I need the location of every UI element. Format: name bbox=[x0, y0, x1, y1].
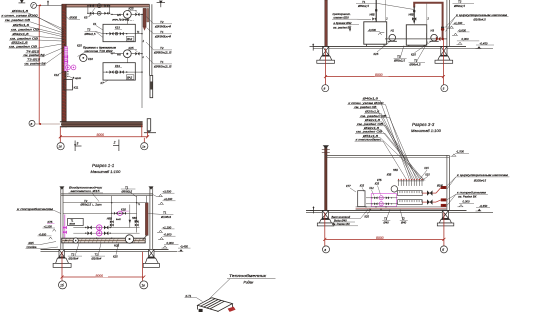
flange circle bbox=[73, 238, 78, 243]
svg-text:см. раздел ВК: см. раздел ВК bbox=[24, 53, 45, 57]
right label Т2 Ø98х4 bbox=[146, 17, 172, 29]
magenta valve pair bbox=[64, 55, 68, 58]
caption Т1 Ø89х4,5 (bottom) bbox=[409, 42, 429, 67]
level +3,200 bbox=[158, 197, 176, 204]
pump Н6 row bbox=[111, 46, 143, 58]
svg-text:Ø98х4: Ø98х4 bbox=[153, 24, 171, 28]
brown supply pipe (top) bbox=[414, 3, 442, 39]
valve bbox=[90, 12, 94, 15]
svg-text:Ø89х2,5: Ø89х2,5 bbox=[84, 32, 96, 36]
expansion tank 2 bbox=[406, 25, 426, 45]
valve assembly on top wall bbox=[87, 4, 110, 15]
dashed vent line bbox=[112, 19, 134, 21]
label К1 bbox=[93, 22, 103, 30]
caption Т1 Ø89х2,5 (top) bbox=[356, 0, 414, 9]
svg-text:-0,600: -0,600 bbox=[458, 28, 466, 32]
axis circle 1в (plan bottom) bbox=[141, 143, 148, 150]
left footing bbox=[53, 249, 71, 267]
caption к потребителям (fig D) bbox=[447, 191, 488, 206]
right column fig D bbox=[447, 155, 450, 210]
bottom pipe runs fig D bbox=[356, 204, 447, 210]
pump Н5 bbox=[123, 11, 131, 19]
svg-text:8000: 8000 bbox=[376, 236, 384, 240]
svg-text:ВА2: ВА2 bbox=[127, 76, 132, 80]
svg-text:К13: К13 bbox=[115, 26, 120, 30]
caption Воздухоотводчик bbox=[69, 186, 104, 202]
pipes through pump frame bbox=[366, 197, 398, 199]
lower riser with hatch and arrow bbox=[150, 76, 153, 98]
tank К77 bbox=[346, 184, 365, 207]
equipment box 1 bbox=[103, 24, 135, 41]
floor lines bbox=[313, 46, 493, 48]
tag ВА2 bbox=[126, 75, 133, 80]
svg-text:Ввод холодной: Ввод холодной bbox=[332, 215, 351, 219]
floor fig D bbox=[306, 210, 493, 212]
svg-text:Ø98х4,5: Ø98х4,5 bbox=[409, 63, 421, 67]
svg-text:+1,100: +1,100 bbox=[44, 224, 53, 228]
svg-text:Ø89х2,5: Ø89х2,5 bbox=[152, 51, 172, 55]
junction dots under pumps bbox=[65, 71, 69, 77]
svg-text:к циркуляционным насосам: к циркуляционным насосам bbox=[456, 13, 507, 17]
black drop pipe into tank2 bbox=[413, 6, 415, 22]
valve bbox=[104, 12, 108, 15]
section cut mark 3 bbox=[75, 141, 81, 152]
svg-text:+3,200: +3,200 bbox=[164, 197, 173, 201]
caption предохранительный клапан bbox=[332, 12, 371, 32]
suction pipe line bbox=[385, 38, 447, 40]
dark red valve at pump Н3 outlet bbox=[436, 37, 441, 42]
svg-text:Ø30Б: Ø30Б bbox=[69, 16, 78, 20]
valve bbox=[120, 32, 124, 36]
svg-text:В щит: В щит bbox=[73, 76, 82, 80]
level +1,100 (left) bbox=[43, 224, 56, 231]
svg-text:+1,100: +1,100 bbox=[454, 21, 463, 25]
level -0,450 (filled) bbox=[178, 244, 191, 251]
left column fig D (brown) bbox=[322, 145, 330, 210]
svg-text:к потребителям: к потребителям bbox=[17, 207, 53, 211]
svg-text:К12: К12 bbox=[54, 73, 59, 77]
svg-text:5000: 5000 bbox=[97, 133, 105, 137]
pump dot bbox=[115, 32, 118, 35]
label Ø51х1,8 bbox=[362, 134, 380, 138]
axis circle Г (fig B) bbox=[441, 85, 448, 92]
svg-text:Ø108х4: Ø108х4 bbox=[160, 215, 172, 219]
red dimension 8000 (fig B) bbox=[324, 39, 445, 85]
caption Т2 Ø89х2,5 ст.2шт bbox=[80, 199, 103, 207]
left footing fig D bbox=[317, 211, 334, 226]
svg-text:к циркуляционным насосам: к циркуляционным насосам bbox=[457, 173, 508, 177]
red element on heat exchanger bbox=[228, 307, 236, 312]
label Ø30Б bbox=[66, 16, 80, 20]
label к теплообмен. bbox=[355, 138, 383, 142]
thin gauge line 2 bbox=[426, 3, 428, 33]
red extension line (axis Г) bbox=[38, 5, 40, 124]
svg-text:К25: К25 bbox=[365, 214, 370, 218]
svg-text:Ø98х4: Ø98х4 bbox=[153, 34, 171, 38]
svg-text:Н3: Н3 bbox=[431, 28, 435, 32]
svg-text:Ø89х2,5: Ø89х2,5 bbox=[393, 59, 405, 63]
label Т4 Ø15 bbox=[26, 49, 40, 53]
label В щит bbox=[69, 76, 82, 80]
level 0,000 (fig D) bbox=[458, 200, 475, 207]
section mark top-right of plan bbox=[157, 1, 165, 7]
svg-text:Ø89х2,5: Ø89х2,5 bbox=[152, 65, 172, 69]
left column base bbox=[317, 47, 335, 64]
label Ø40х1,8 bbox=[361, 97, 380, 101]
axis circle 1в (fig C) bbox=[140, 281, 148, 289]
pump Н6 bbox=[123, 50, 131, 58]
pump bbox=[97, 4, 101, 8]
drop arrow and riser branch bbox=[129, 204, 141, 228]
caption Т1 Ø108х4 (riser) bbox=[148, 211, 173, 219]
svg-text:К25: К25 bbox=[129, 46, 134, 50]
svg-text:см. раздел ВК: см. раздел ВК bbox=[333, 25, 351, 29]
label см. раздел ОВ bbox=[10, 28, 40, 32]
svg-text:Разрез 3-3: Разрез 3-3 bbox=[412, 122, 435, 127]
left wall bbox=[62, 4, 66, 127]
wire pump H5 to box1 bbox=[126, 18, 128, 24]
junction dots on main pipe bbox=[65, 238, 112, 242]
top beam bbox=[61, 194, 153, 196]
equipment box 2 bbox=[103, 63, 135, 80]
drainage pump К16 bbox=[80, 54, 87, 61]
level +3,500 bbox=[153, 190, 175, 197]
red pipe from bar1 with valve bbox=[422, 186, 446, 196]
heat exchanger bar 1 bbox=[398, 191, 423, 196]
svg-text:см. Раздел ВК: см. Раздел ВК bbox=[458, 195, 477, 199]
svg-text:см. раздел ОВ: см. раздел ОВ bbox=[9, 44, 37, 48]
level 0,000 bbox=[162, 241, 179, 248]
svg-text:К25: К25 bbox=[113, 255, 118, 259]
red axis line to circle В (bottom-left of plan) bbox=[29, 120, 60, 126]
level -1,500 (beam) bbox=[451, 150, 470, 157]
bottom wall bbox=[60, 122, 143, 127]
label см. раздел ВК bbox=[24, 62, 46, 66]
svg-text:-1,500: -1,500 bbox=[456, 150, 464, 154]
axis circle А (fig D) bbox=[323, 246, 330, 253]
junction tick at x48 bbox=[47, 1, 49, 6]
level -0,600 bbox=[158, 233, 176, 240]
svg-text:Н5: Н5 bbox=[117, 13, 121, 17]
small tank box (left) bbox=[68, 218, 84, 225]
svg-text:0,000: 0,000 bbox=[167, 241, 174, 245]
label см. раздел ОВ bbox=[9, 44, 39, 48]
magenta riser with rungs bbox=[64, 47, 68, 72]
svg-text:а: а bbox=[324, 248, 326, 252]
svg-text:К1Б: К1Б bbox=[121, 207, 126, 211]
svg-text:к стен. узлам Ø100: к стен. узлам Ø100 bbox=[2, 13, 38, 17]
section cut mark 2 bbox=[113, 140, 119, 152]
svg-text:К16: К16 bbox=[88, 57, 93, 61]
leader fan fig D bbox=[377, 100, 425, 180]
label см. раздел ОВ bbox=[5, 18, 31, 22]
svg-text:Ø108: Ø108 bbox=[69, 224, 76, 226]
upper pipe run bbox=[63, 202, 147, 204]
svg-text:Ø89х2,5 ∟ 2шт: Ø89х2,5 ∟ 2шт bbox=[80, 203, 103, 207]
labels К15 (manifold right) bbox=[420, 167, 429, 179]
svg-text:+1,100: +1,100 bbox=[163, 225, 172, 229]
label Ø25х1,6 bbox=[12, 23, 30, 27]
svg-text:К25: К25 bbox=[411, 53, 416, 57]
vertical pipe 2 bbox=[136, 196, 138, 233]
label Ø25х1,6 bbox=[364, 110, 381, 114]
insulated main pipe bbox=[62, 235, 145, 248]
right footing fig D bbox=[437, 211, 454, 226]
svg-text:Н8Б: Н8Б bbox=[409, 12, 414, 16]
svg-text:см. раздел ОВ: см. раздел ОВ bbox=[5, 18, 30, 22]
red pipe from bar2 with valve bbox=[422, 198, 446, 204]
svg-text:-0,450: -0,450 bbox=[180, 244, 188, 248]
label Ø32х1,8 bbox=[363, 126, 381, 130]
caption К-Т1 bbox=[185, 294, 203, 302]
svg-text:-0,600: -0,600 bbox=[164, 233, 172, 237]
level mark +1,100 bbox=[448, 21, 465, 28]
brown riser Т1 bbox=[145, 203, 148, 236]
pink pump frame bbox=[371, 194, 396, 207]
valve after pump bbox=[131, 53, 135, 55]
magenta pump on main pipe bbox=[125, 235, 133, 243]
wire from axis circle to wall bbox=[37, 4, 62, 6]
svg-text:клапан Ø20: клапан Ø20 bbox=[334, 15, 350, 19]
svg-text:см. раздел ВК: см. раздел ВК bbox=[25, 62, 46, 66]
caption Т2 Ø89х2,5 (bottom) bbox=[393, 46, 407, 63]
black drop pipe into tank1 bbox=[375, 0, 377, 22]
svg-text:3: 3 bbox=[77, 141, 79, 145]
caption к циркуляционным насосам (fig D) bbox=[447, 173, 509, 189]
tag ВА2 bbox=[126, 36, 133, 41]
label см. раздел ВК bbox=[23, 53, 45, 57]
svg-text:см. Раздел ВК: см. Раздел ВК bbox=[332, 222, 350, 226]
heat exchanger bar 2 bbox=[398, 200, 423, 205]
left annotation block of figure A bbox=[1, 9, 46, 65]
level -0,600 (left) bbox=[38, 232, 53, 239]
svg-text:автоматич. Ø15: автоматич. Ø15 bbox=[71, 189, 101, 193]
inner riser line bbox=[141, 14, 143, 108]
svg-text:Н5Б: Н5Б bbox=[393, 169, 398, 172]
magenta valves row 1 bbox=[85, 225, 111, 230]
labels К15 К12 bbox=[360, 183, 381, 196]
svg-text:К7: К7 bbox=[101, 81, 105, 85]
valve bbox=[120, 70, 124, 74]
riser pipe Т2 (brown, top right) bbox=[143, 8, 149, 30]
label Т3 Ø15 bbox=[27, 58, 41, 62]
annotation block fig D bbox=[347, 97, 389, 142]
right column base bbox=[435, 47, 453, 64]
label К7 bbox=[101, 80, 109, 85]
label К12 bbox=[54, 72, 64, 78]
pit caption bbox=[78, 45, 117, 56]
svg-text:К25: К25 bbox=[129, 7, 134, 11]
right-side captions of figure B bbox=[453, 0, 475, 8]
caption Т2 Ø40 bbox=[400, 209, 408, 224]
valve bbox=[110, 70, 114, 74]
svg-text:Масштаб 1:100: Масштаб 1:100 bbox=[91, 169, 122, 174]
right wall bbox=[447, 0, 450, 46]
section mark top-left bbox=[19, 0, 26, 3]
magenta valve К1Б bbox=[114, 207, 129, 220]
labels К25 with leaders (fig B bottom) bbox=[374, 42, 391, 56]
riser elbow bbox=[143, 235, 147, 240]
svg-text:0,000: 0,000 bbox=[463, 200, 470, 204]
svg-text:-0,450: -0,450 bbox=[480, 41, 488, 45]
upper connection line bbox=[63, 212, 137, 214]
level +1,100 bbox=[157, 225, 175, 232]
label Ø40х1,8 bbox=[11, 9, 29, 13]
svg-text:8000: 8000 bbox=[375, 73, 383, 77]
svg-text:К15: К15 bbox=[425, 173, 430, 176]
svg-text:К25: К25 bbox=[375, 183, 380, 186]
label К5 with leaders bbox=[84, 8, 95, 19]
svg-text:1в: 1в bbox=[142, 145, 146, 149]
heat exchanger body bbox=[198, 298, 233, 312]
label Ø32х1,8 bbox=[10, 40, 28, 44]
svg-text:б: б bbox=[442, 248, 444, 252]
caption К25 fig D bbox=[365, 209, 372, 218]
caption Т1 Ø40 bbox=[382, 209, 390, 224]
svg-text:К7Б: К7Б bbox=[48, 220, 53, 224]
svg-text:Ø89х2,5: Ø89х2,5 bbox=[453, 4, 465, 8]
floor bbox=[41, 249, 178, 251]
top wall bbox=[62, 4, 150, 7]
svg-text:-0,450: -0,450 bbox=[479, 204, 487, 208]
left column (brown) bbox=[325, 0, 328, 46]
svg-text:К15: К15 bbox=[424, 167, 429, 170]
label к стен. узлам bbox=[347, 101, 385, 105]
label Т2 Ø89х2,5 bbox=[84, 28, 104, 38]
svg-text:К7Б: К7Б bbox=[377, 179, 382, 182]
right label Т1 Ø89х2,5 bbox=[146, 56, 172, 69]
small valves in pump frame bbox=[371, 196, 392, 205]
right label Т2 Ø89х2,5 bbox=[146, 42, 172, 55]
cabinet box К11 bbox=[64, 80, 73, 90]
magenta valves row 2 bbox=[73, 228, 139, 236]
axis circle 1б (fig C) bbox=[59, 281, 67, 289]
svg-text:Ø89х2,5: Ø89х2,5 bbox=[357, 4, 369, 8]
svg-text:к теплообмен.: к теплообмен. bbox=[356, 138, 382, 142]
svg-text:Ø108х4,5: Ø108х4,5 bbox=[473, 179, 487, 183]
svg-text:К5Б: К5Б bbox=[387, 174, 392, 177]
label к стен. узлам bbox=[1, 13, 38, 17]
svg-text:Н8Б: Н8Б bbox=[370, 12, 375, 16]
magenta pumps fig D bbox=[379, 196, 383, 200]
svg-text:1в: 1в bbox=[141, 283, 145, 287]
svg-text:1б: 1б bbox=[58, 145, 62, 149]
caption Ввод холодной воды bbox=[331, 209, 368, 226]
label Ø32х1,8 bbox=[364, 118, 382, 122]
svg-text:К1: К1 bbox=[93, 22, 97, 26]
svg-text:Ø108х4: Ø108х4 bbox=[68, 256, 79, 260]
caption Теплообменник Ридан bbox=[209, 274, 276, 299]
svg-text:К15: К15 bbox=[360, 184, 365, 187]
svg-text:насосом Т19 Ø32: насосом Т19 Ø32 bbox=[85, 49, 113, 53]
svg-text:в: в bbox=[31, 122, 33, 126]
valve after pump bbox=[131, 13, 135, 15]
level mark -0,450 (filled) bbox=[476, 41, 495, 48]
svg-text:Н8Б: Н8Б bbox=[107, 217, 112, 220]
label см. раздел ОВ bbox=[356, 122, 386, 126]
svg-text:0,000: 0,000 bbox=[462, 37, 469, 41]
caption Ø25 Стойка bbox=[26, 241, 59, 249]
red dimension 8000 (fig D) bbox=[323, 212, 445, 246]
svg-text:Н6: Н6 bbox=[117, 52, 121, 56]
svg-text:ВА2: ВА2 bbox=[127, 37, 132, 41]
caption к циркуляционным насосам bbox=[445, 13, 509, 32]
caption К7Б (magenta) bbox=[47, 220, 55, 224]
label см. раздел ОВ bbox=[359, 114, 389, 118]
red dimension 5000 (fig C) bbox=[61, 252, 146, 281]
vertical pipe 1 bbox=[111, 196, 113, 228]
svg-text:+3,500: +3,500 bbox=[163, 190, 172, 194]
svg-text:Ø100: Ø100 bbox=[436, 184, 444, 187]
axis circle 1б (plan bottom) bbox=[57, 143, 64, 150]
level mark -0,600 bbox=[452, 28, 470, 35]
svg-text:Н2Б: Н2Б bbox=[114, 243, 119, 247]
right footing bbox=[143, 249, 159, 267]
axis circle В (fig B) bbox=[322, 85, 329, 92]
device circle bbox=[391, 186, 397, 192]
valve group Н8Б (left) bbox=[107, 217, 114, 226]
valve bbox=[110, 32, 114, 36]
svg-text:К-Т1: К-Т1 bbox=[186, 294, 192, 298]
caption Т1 Ø108х4 (below pipe) bbox=[91, 243, 106, 260]
pump bbox=[97, 11, 101, 15]
svg-text:Ø108х4,5: Ø108х4,5 bbox=[473, 17, 487, 21]
middle pipe run bbox=[73, 227, 139, 229]
svg-text:2: 2 bbox=[113, 140, 116, 144]
valve group Н8Б К5 (right) bbox=[132, 217, 139, 227]
svg-text:8х42: 8х42 bbox=[116, 218, 122, 221]
svg-text:Ø108х4: Ø108х4 bbox=[91, 256, 102, 260]
svg-text:Масштаб 1:100: Масштаб 1:100 bbox=[411, 128, 442, 133]
wire pump H6 to box2 bbox=[126, 58, 128, 63]
level mark 0,000 bbox=[457, 37, 480, 44]
svg-text:К13: К13 bbox=[115, 64, 120, 68]
valve node on brown pipe bbox=[441, 28, 444, 31]
label см. раздел ОВ bbox=[355, 130, 385, 134]
svg-text:-0,600: -0,600 bbox=[368, 28, 376, 32]
floor end tick fig D bbox=[310, 206, 314, 213]
top beam fig D bbox=[325, 155, 450, 157]
svg-text:К25: К25 bbox=[374, 52, 379, 56]
thin gauge line 1 bbox=[385, 0, 387, 22]
caption К25 (below pipe) bbox=[113, 243, 119, 258]
manifold comb bbox=[398, 179, 424, 186]
pump Н1 bbox=[388, 28, 397, 41]
right column bbox=[150, 188, 153, 252]
floor end tick bbox=[310, 44, 314, 51]
red dimension 5000 (plan) bbox=[59, 125, 149, 142]
svg-text:К12: К12 bbox=[369, 187, 374, 190]
svg-text:К25: К25 bbox=[77, 44, 82, 48]
svg-text:Ø25х1,6: Ø25х1,6 bbox=[12, 23, 30, 27]
svg-text:Ø40: Ø40 bbox=[400, 221, 407, 225]
svg-text:Теплообменник: Теплообменник bbox=[229, 274, 267, 278]
valve Н8Б on tank1 bbox=[370, 12, 377, 20]
svg-text:Ø40: Ø40 bbox=[383, 221, 390, 225]
caption Т1 Ø89х2,5 (fig C top) bbox=[121, 185, 137, 197]
label Ø32х1,8 bbox=[11, 32, 29, 36]
axis circle Г top-left bbox=[31, 3, 37, 9]
pump dot bbox=[115, 71, 118, 74]
valve bbox=[90, 4, 94, 7]
valve bbox=[104, 4, 108, 7]
svg-text:1б: 1б bbox=[60, 283, 64, 287]
pump Н3 bbox=[430, 28, 439, 41]
right label Т1 Ø98х4 bbox=[147, 28, 173, 39]
svg-text:в дренаж Ø32: в дренаж Ø32 bbox=[334, 21, 352, 25]
left column bbox=[61, 188, 63, 252]
svg-text:-0,600: -0,600 bbox=[39, 232, 47, 236]
